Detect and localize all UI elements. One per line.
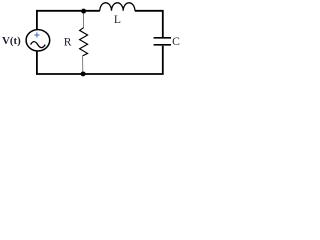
inductor L coil	[100, 3, 135, 11]
resistor R zigzag	[80, 28, 88, 56]
svg-text:R: R	[64, 35, 72, 48]
voltage source U1 circle	[26, 30, 50, 51]
resistor R top lead	[83, 11, 85, 28]
svg-text:V(t): V(t)	[2, 35, 21, 47]
voltage source plus polarity mark	[34, 32, 39, 37]
capacitor C top plate	[154, 37, 171, 39]
resistor R bottom lead	[82, 56, 84, 74]
wire bottom from source to capacitor	[37, 46, 163, 74]
junction node top (resistor/top wire)	[81, 9, 86, 14]
svg-text:C: C	[172, 35, 180, 48]
voltage source sine wave	[31, 42, 46, 48]
capacitor C bottom plate	[154, 44, 171, 46]
junction node bottom (resistor/bottom wire)	[81, 71, 86, 76]
wire top-right from inductor to capacitor	[135, 11, 163, 37]
svg-text:L: L	[114, 13, 121, 26]
wire top-left from source to resistor node	[37, 11, 100, 30]
